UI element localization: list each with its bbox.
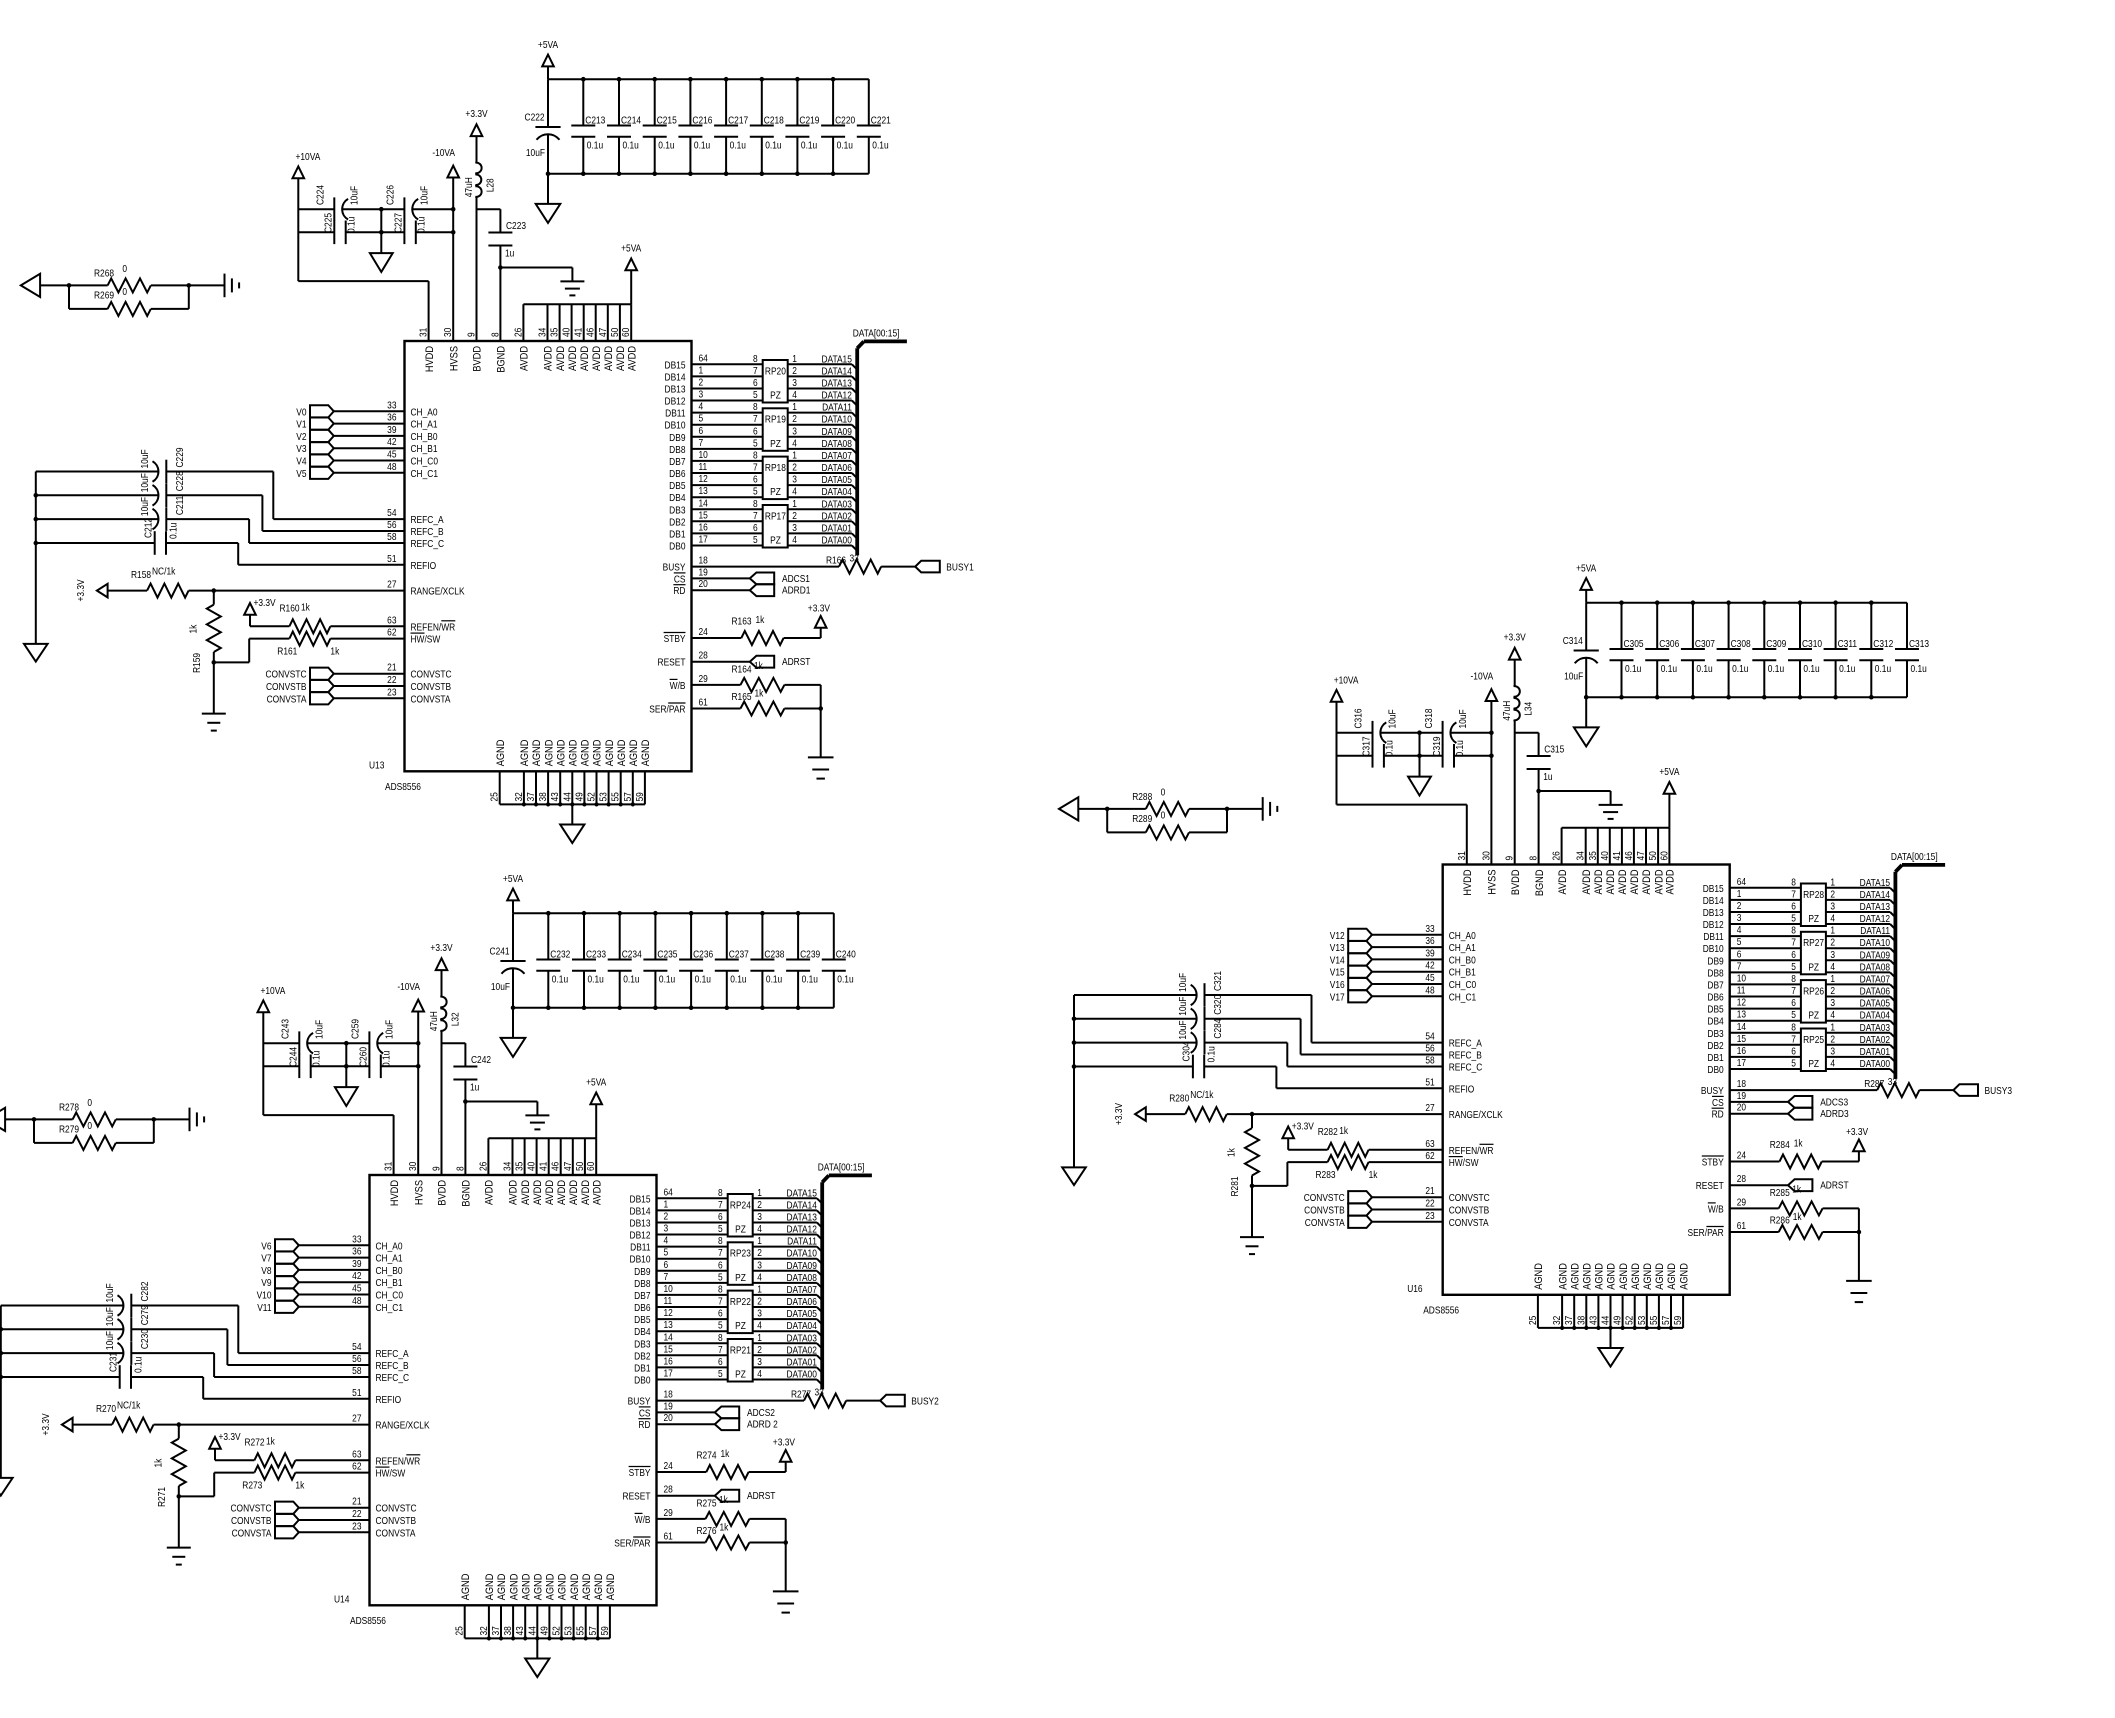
svg-text:4: 4 [757,1320,762,1331]
svg-text:DATA15: DATA15 [786,1188,816,1199]
svg-text:4: 4 [664,1235,669,1246]
svg-text:0.1u: 0.1u [587,140,603,151]
svg-text:10uF: 10uF [104,1331,115,1350]
svg-text:REFC_A: REFC_A [376,1348,410,1359]
capacitor C216 0.1u [678,79,712,174]
svg-text:U16: U16 [1407,1283,1422,1294]
resistor network RP18 PZ [753,450,797,499]
svg-text:17: 17 [664,1368,673,1379]
svg-text:51: 51 [352,1387,361,1398]
svg-text:C220: C220 [835,115,855,126]
svg-text:DB1: DB1 [1707,1052,1723,1063]
signal ground below R159 [202,714,226,731]
svg-text:0.1u: 0.1u [1454,740,1465,756]
svg-text:0.1u: 0.1u [802,974,818,985]
svg-text:DB7: DB7 [634,1290,650,1301]
svg-text:6: 6 [1791,997,1796,1008]
svg-text:ADRD 2: ADRD 2 [747,1419,778,1430]
svg-text:+3.3V: +3.3V [75,579,86,602]
svg-text:C238: C238 [764,949,784,960]
svg-text:40: 40 [1599,851,1610,860]
svg-text:28: 28 [699,650,708,661]
svg-text:C241: C241 [490,946,510,957]
wire W/B,SER/PAR to ground [818,685,823,758]
svg-text:RP24: RP24 [730,1200,751,1211]
svg-text:C221: C221 [871,115,891,126]
svg-text:30: 30 [408,1162,419,1171]
svg-text:14: 14 [699,498,708,509]
svg-text:0.1u: 0.1u [1768,663,1784,674]
ground of AGND pins [525,1638,549,1677]
connector tag V16 [1330,978,1372,990]
svg-text:BGND: BGND [1534,870,1546,897]
svg-text:1: 1 [664,1199,669,1210]
pin 19 CS name [1712,1096,1724,1108]
svg-text:10uF: 10uF [139,449,150,468]
capacitor C235 0.1u [643,913,677,1008]
svg-text:50: 50 [609,328,620,337]
svg-text:CONVSTB: CONVSTB [411,681,452,692]
svg-text:CH_A1: CH_A1 [411,419,438,430]
svg-text:W/B: W/B [1708,1204,1724,1215]
svg-text:47uH: 47uH [428,1011,439,1031]
svg-text:CS: CS [639,1408,651,1419]
svg-text:R280: R280 [1169,1093,1189,1104]
connector tag V11 [257,1301,299,1313]
svg-text:ADCS2: ADCS2 [747,1407,775,1418]
svg-text:REFC_B: REFC_B [1449,1050,1482,1061]
svg-text:18: 18 [1737,1078,1746,1089]
svg-text:2: 2 [699,377,704,388]
svg-text:6: 6 [699,425,704,436]
svg-text:DB14: DB14 [665,372,686,383]
svg-text:AGND: AGND [1618,1263,1630,1290]
svg-text:1u: 1u [1543,771,1552,782]
svg-text:2: 2 [1830,937,1835,948]
svg-text:C218: C218 [764,115,784,126]
svg-text:BUSY: BUSY [663,562,686,573]
svg-text:+3.3V: +3.3V [40,1413,51,1436]
wire pin26/AVDD power box [488,1138,596,1175]
svg-text:AVDD: AVDD [591,346,603,371]
svg-text:1: 1 [792,401,797,412]
svg-text:C320: C320 [1213,995,1224,1015]
svg-text:2: 2 [1830,889,1835,900]
svg-text:V12: V12 [1330,930,1345,941]
svg-text:C231: C231 [108,1352,119,1372]
capacitor C279 10uF [1,1305,228,1341]
svg-text:4: 4 [1830,913,1835,924]
svg-text:26: 26 [1551,851,1562,860]
svg-text:2: 2 [757,1199,762,1210]
svg-text:60: 60 [1659,851,1670,860]
pin 20 RD name [673,585,685,597]
svg-text:W/B: W/B [635,1514,651,1525]
svg-text:CONVSTA: CONVSTA [1449,1217,1490,1228]
capacitor C223 1u on pin 8 BGND [477,209,527,341]
connector tag CONVSTA [232,1526,299,1538]
svg-text:30: 30 [443,328,454,337]
capacitor C224 10uF [315,185,360,221]
svg-text:C232: C232 [550,949,570,960]
svg-text:AGND: AGND [495,740,507,767]
svg-text:DATA06: DATA06 [1860,986,1890,997]
wire V5 to pin 48 [334,461,438,479]
svg-text:C233: C233 [586,949,606,960]
bus DATA[00:15] [818,1162,872,1390]
svg-text:4: 4 [1830,1010,1835,1021]
capacitor C211 10uF [36,496,249,531]
svg-text:39: 39 [387,424,396,435]
svg-text:R277: R277 [791,1389,811,1400]
svg-text:58: 58 [387,531,396,542]
svg-text:CS: CS [674,574,686,585]
svg-text:10uF: 10uF [526,147,545,158]
svg-text:8: 8 [753,498,758,509]
svg-text:V17: V17 [1330,992,1345,1003]
svg-text:8: 8 [1791,925,1796,936]
svg-text:4: 4 [757,1272,762,1283]
svg-text:HVSS: HVSS [414,1180,426,1205]
resistor R288 0 [1105,787,1229,816]
svg-text:C213: C213 [585,115,605,126]
svg-text:C313: C313 [1909,638,1929,649]
svg-text:1: 1 [1830,1022,1835,1033]
resistor R160 1k [280,602,405,634]
svg-text:0.1u: 0.1u [730,140,746,151]
svg-text:AGND: AGND [509,1574,521,1601]
chassis ground (rotated) [225,274,240,298]
svg-text:14: 14 [1737,1021,1746,1032]
svg-text:4: 4 [1737,924,1742,935]
svg-text:53: 53 [1636,1316,1647,1325]
svg-text:AVDD: AVDD [520,1180,532,1205]
svg-text:60: 60 [586,1162,597,1171]
svg-text:16: 16 [699,522,708,533]
svg-text:2: 2 [757,1344,762,1355]
resistor network RP20 PZ [753,353,797,402]
wire left reference rail to ground [1072,995,1077,1167]
svg-text:DATA08: DATA08 [1860,962,1890,973]
svg-text:7: 7 [1737,961,1742,972]
svg-text:0.1u: 0.1u [1803,663,1819,674]
svg-text:C226: C226 [385,185,396,205]
svg-text:8: 8 [753,450,758,461]
svg-text:C223: C223 [506,220,526,231]
capacitor C222 10uF [525,79,561,174]
svg-text:62: 62 [1425,1150,1434,1161]
svg-text:CH_B0: CH_B0 [376,1265,403,1276]
svg-text:0: 0 [1161,810,1166,821]
svg-text:59: 59 [1672,1316,1683,1325]
U14 top pin names and numbers [383,1162,604,1207]
resistor network RP22 PZ [718,1284,762,1333]
svg-text:C314: C314 [1563,635,1583,646]
svg-text:6: 6 [718,1356,723,1367]
capacitor C215 0.1u [643,79,677,174]
svg-text:1k: 1k [1226,1148,1237,1157]
svg-text:DATA07: DATA07 [786,1284,816,1295]
svg-text:59: 59 [634,792,645,801]
svg-text:AGND: AGND [1667,1263,1679,1290]
svg-text:18: 18 [664,1389,673,1400]
svg-text:DB12: DB12 [1703,919,1724,930]
svg-text:3: 3 [1830,997,1835,1008]
svg-text:37: 37 [1564,1316,1575,1325]
resistor network RP26 PZ [1791,973,1835,1022]
svg-text:1k: 1k [756,614,765,625]
U16 top pin names and numbers [1456,851,1677,896]
svg-text:62: 62 [352,1461,361,1472]
svg-text:DB15: DB15 [630,1194,651,1205]
svg-text:NC/1k: NC/1k [152,566,176,577]
wire V0 to pin 33 [334,400,438,418]
svg-text:25: 25 [489,792,500,801]
svg-text:DATA14: DATA14 [821,366,851,377]
resistor R272 1k [245,1436,370,1468]
svg-text:25: 25 [1527,1316,1538,1325]
wire CONVSTA to pin 23 [334,687,451,705]
capacitor C229 10uF [36,447,273,483]
svg-text:4: 4 [1830,1058,1835,1069]
svg-text:BUSY: BUSY [628,1396,651,1407]
svg-text:63: 63 [387,615,396,626]
svg-text:AVDD: AVDD [627,346,639,371]
svg-text:SER/PAR: SER/PAR [614,1538,651,1549]
power +10VA arrow [1331,675,1360,702]
svg-text:51: 51 [1425,1077,1434,1088]
connector tag ADCS2 [657,1401,775,1419]
svg-text:31: 31 [418,328,429,337]
power +3.3V arrow at R284 [1846,1126,1869,1161]
svg-text:CONVSTA: CONVSTA [411,694,452,705]
svg-text:C224: C224 [315,185,326,205]
svg-text:AVDD: AVDD [1642,870,1654,895]
svg-text:1: 1 [1830,877,1835,888]
svg-text:V8: V8 [261,1265,271,1276]
resistor R280 NC/1k [1169,1089,1503,1121]
svg-text:DB3: DB3 [634,1339,650,1350]
svg-text:7: 7 [699,437,704,448]
svg-text:PZ: PZ [770,438,781,449]
IC U16 ADS8556 body [1407,865,1730,1316]
svg-text:DB13: DB13 [665,384,686,395]
resistor R268 0 [67,263,191,292]
svg-text:3: 3 [1830,1046,1835,1057]
svg-text:AGND: AGND [1630,1263,1642,1290]
capacitor C313 0.1u [1895,603,1929,698]
wire V11 to pin 48 [299,1295,403,1313]
svg-text:10uF: 10uF [1387,709,1398,728]
svg-text:0.1u: 0.1u [552,974,568,985]
wire +5VA decoupling bank rails [511,911,834,1010]
svg-text:AVDD: AVDD [1665,870,1677,895]
connector tag V10 [257,1288,299,1300]
svg-text:39: 39 [1425,948,1434,959]
resistor R163 1k on STBY [692,614,821,645]
svg-text:DB10: DB10 [630,1254,651,1265]
svg-text:DB8: DB8 [669,444,685,455]
svg-text:HW/SW: HW/SW [411,634,441,645]
svg-text:C260: C260 [358,1047,369,1067]
resistor network RP27 PZ [1791,925,1835,974]
capacitor C305 0.1u [1610,603,1644,698]
svg-text:24: 24 [699,626,708,637]
svg-text:8: 8 [1528,856,1539,861]
svg-text:-10VA: -10VA [432,147,455,158]
resistor R275 1k on W/B [657,1494,786,1526]
svg-text:REFC_A: REFC_A [411,514,445,525]
svg-text:6: 6 [753,377,758,388]
svg-text:AVDD: AVDD [567,346,579,371]
capacitor C304 0.1u [1074,1041,1276,1078]
svg-text:1k: 1k [1369,1169,1378,1180]
svg-text:CH_A1: CH_A1 [1449,942,1476,953]
svg-text:10uF: 10uF [491,981,510,992]
signal ground below R276 [773,1591,799,1612]
connector tag CONVSTB [266,680,334,692]
svg-text:REFEN/WR: REFEN/WR [376,1456,421,1467]
power -10VA arrow on pin 30 HVSS [432,147,459,341]
capacitor C308 0.1u [1717,603,1751,698]
svg-text:C237: C237 [729,949,749,960]
svg-text:CONVSTC: CONVSTC [376,1503,417,1514]
pin 62 HW/SW name [411,633,441,645]
svg-text:AVDD: AVDD [543,346,555,371]
capacitor C218 0.1u [750,79,784,174]
svg-text:STBY: STBY [1702,1157,1724,1168]
svg-text:C312: C312 [1873,638,1893,649]
capacitor C232 0.1u [536,913,570,1008]
svg-text:DATA13: DATA13 [1860,901,1890,912]
U13 DB data pins wires [665,353,763,552]
svg-text:+10VA: +10VA [261,986,287,997]
svg-text:3: 3 [664,1223,669,1234]
wire CONVSTB to pin 22 [334,674,451,692]
svg-text:C229: C229 [174,447,185,467]
svg-text:8: 8 [490,332,501,337]
inductor L28 47uH [463,163,495,341]
svg-text:2: 2 [1830,985,1835,996]
pin 29 W/B name [635,1513,651,1525]
svg-text:DB10: DB10 [1703,944,1724,955]
svg-text:AGND: AGND [460,1574,472,1601]
svg-text:HVSS: HVSS [449,346,461,371]
svg-text:10uF: 10uF [384,1020,395,1039]
wire +10VA/-10VA decoupling rails [263,1041,420,1069]
svg-text:28: 28 [1737,1174,1746,1185]
wire to pin 58 REFC_C [249,519,444,549]
svg-text:6: 6 [753,426,758,437]
svg-text:+5VA: +5VA [586,1077,607,1088]
svg-text:51: 51 [387,553,396,564]
svg-text:DATA06: DATA06 [821,462,851,473]
svg-text:7: 7 [718,1296,723,1307]
svg-text:0.1u: 0.1u [837,140,853,151]
svg-text:29: 29 [664,1507,673,1518]
svg-text:C239: C239 [800,949,820,960]
svg-text:CH_B1: CH_B1 [1449,967,1476,978]
resistor R161 1k [214,627,405,662]
svg-text:C215: C215 [657,115,677,126]
svg-text:18: 18 [699,555,708,566]
svg-text:DB14: DB14 [630,1206,651,1217]
svg-text:C309: C309 [1766,638,1786,649]
svg-text:CH_C0: CH_C0 [411,456,439,467]
capacitor C318 10uF [1423,708,1468,744]
svg-text:8: 8 [1791,973,1796,984]
svg-text:5: 5 [718,1223,723,1234]
svg-text:AGND: AGND [1606,1263,1618,1290]
power +5VA arrow at AVDD pins [1659,766,1680,827]
svg-text:1k: 1k [719,1494,728,1505]
wire V14 to pin 39 [1372,948,1476,966]
svg-text:R158: R158 [131,569,151,580]
svg-text:1: 1 [792,450,797,461]
svg-text:DATA13: DATA13 [821,378,851,389]
svg-text:R285: R285 [1770,1187,1790,1198]
svg-text:40: 40 [526,1162,537,1171]
svg-text:DB13: DB13 [1703,907,1724,918]
resistor R289 0 [1107,809,1227,840]
resistor R278 0 [32,1097,156,1126]
U16 DATA wires to bus [1826,877,1896,1074]
svg-text:0: 0 [87,1120,92,1131]
svg-text:1k: 1k [188,624,199,633]
svg-text:1k: 1k [755,688,764,699]
svg-text:17: 17 [699,534,708,545]
connector tag CONVSTC [1304,1191,1372,1203]
svg-text:10uF: 10uF [1178,996,1189,1015]
svg-text:DATA11: DATA11 [1860,925,1890,936]
svg-text:AGND: AGND [545,1574,557,1601]
wire V6 to pin 33 [299,1234,403,1252]
svg-text:0.1u: 0.1u [1696,663,1712,674]
resistor network RP23 PZ [718,1235,762,1284]
svg-text:AVDD: AVDD [556,1180,568,1205]
wire R278 to chassis ground [154,1118,190,1120]
svg-text:0.1u: 0.1u [765,140,781,151]
svg-text:AGND: AGND [544,740,556,767]
svg-text:35: 35 [514,1162,525,1171]
svg-text:CH_C1: CH_C1 [376,1302,404,1313]
svg-text:23: 23 [387,687,396,698]
svg-text:0.1u: 0.1u [623,974,639,985]
svg-text:DB0: DB0 [1707,1064,1723,1075]
svg-text:AVDD: AVDD [579,346,591,371]
svg-text:62: 62 [387,627,396,638]
capacitor C226 10uF [385,185,430,221]
svg-text:DATA14: DATA14 [786,1200,816,1211]
svg-text:43: 43 [1588,1316,1599,1325]
resistor R282 1k [1318,1125,1443,1157]
svg-text:8: 8 [1791,877,1796,888]
capacitor C243 10uF [280,1019,325,1055]
svg-text:28: 28 [664,1484,673,1495]
svg-text:10: 10 [699,449,708,460]
svg-text:DB11: DB11 [665,408,685,419]
resistor R276 1k on SER/PAR [657,1522,786,1550]
power +3.3V arrow at R272 [209,1431,254,1460]
svg-text:C243: C243 [280,1019,291,1039]
svg-text:DATA09: DATA09 [821,426,851,437]
svg-text:C315: C315 [1544,744,1564,755]
capacitor C221 0.1u [857,79,891,174]
svg-text:DATA06: DATA06 [786,1296,816,1307]
svg-text:SER/PAR: SER/PAR [649,704,686,715]
svg-text:DATA02: DATA02 [1860,1034,1890,1045]
wire R288 to chassis ground [1227,808,1263,810]
